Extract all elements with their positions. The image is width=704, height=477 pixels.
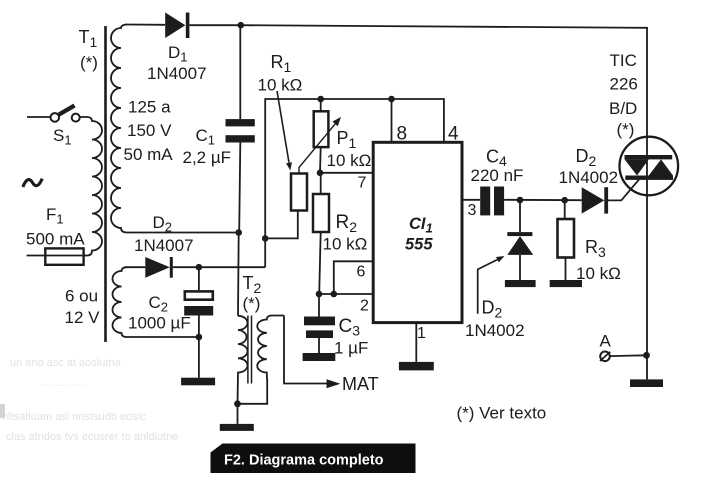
supply riser from rectifier to +V rail <box>265 99 444 267</box>
transformer T1 secondary 1 (125-150V) winding <box>111 25 127 233</box>
svg-text:D1: D1 <box>168 43 188 65</box>
diode D2 1N4002 series (to triac gate) <box>582 187 605 213</box>
svg-text:TIC: TIC <box>610 51 637 70</box>
capacitor C1 <box>239 25 241 119</box>
svg-text:1: 1 <box>417 325 426 342</box>
AC source symbol <box>23 179 42 187</box>
svg-text:8: 8 <box>397 124 408 145</box>
node C4 out <box>517 197 524 204</box>
node top wire / C1 <box>238 22 245 29</box>
wire pin 2 <box>319 293 373 295</box>
node R2/C3 <box>316 291 323 298</box>
transformer T2 primary winding <box>238 316 248 404</box>
node C2 top <box>196 264 203 271</box>
wire AC input top <box>27 116 50 118</box>
transformer T1 core <box>104 26 107 342</box>
svg-text:50 mA: 50 mA <box>124 145 174 164</box>
wire diode to triac gate <box>608 178 640 200</box>
svg-text:clas atndos tvs ecusrer to anl: clas atndos tvs ecusrer to anldiutne <box>6 431 178 443</box>
resistor R2 <box>320 173 322 194</box>
wire pin 6 <box>334 261 373 294</box>
node R3 top <box>561 197 568 204</box>
wire T2 bottom to ground <box>237 404 239 424</box>
caption F2 Diagrama completo <box>211 444 416 474</box>
svg-text:F2. Diagrama completo: F2. Diagrama completo <box>224 453 384 469</box>
svg-text:2,2 µF: 2,2 µF <box>183 148 232 167</box>
bleed-through (decorative) <box>0 357 178 443</box>
ground below R3 <box>550 280 582 287</box>
diode D1 <box>165 13 185 39</box>
IC CI1 555 <box>373 142 462 322</box>
label arrow to R1 <box>277 91 289 163</box>
svg-text:A: A <box>600 332 612 351</box>
triac TIC226 <box>620 137 679 196</box>
svg-text:un ano asc at aoslutna: un ano asc at aoslutna <box>10 357 122 369</box>
svg-text:12 V: 12 V <box>65 308 101 327</box>
svg-text:1 µF: 1 µF <box>334 339 368 358</box>
svg-text:150 V: 150 V <box>127 121 172 140</box>
wire riser to R1 bottom <box>265 211 298 239</box>
transformer T2 core <box>248 316 252 384</box>
wire D2 cathode to riser <box>173 266 265 268</box>
node C2 bottom <box>196 334 203 341</box>
wire pin 8 <box>391 99 393 142</box>
node C1 bottom <box>235 229 242 236</box>
capacitor C4 <box>480 187 490 216</box>
wire pin 3 to C4 <box>462 199 480 201</box>
ground below C2 <box>181 378 215 386</box>
svg-text:D2: D2 <box>153 213 173 235</box>
wire C1 node down to T2 primary <box>237 233 240 316</box>
svg-text:6: 6 <box>357 264 366 281</box>
svg-text:(*): (*) <box>243 294 261 313</box>
wire C2 node to ground <box>198 337 200 378</box>
node T2 bottom <box>234 400 241 407</box>
transformer T1 primary winding <box>80 117 102 256</box>
svg-text:226: 226 <box>610 75 638 94</box>
svg-text:D2: D2 <box>576 146 597 169</box>
svg-text:T2: T2 <box>243 273 262 296</box>
svg-text:2: 2 <box>360 298 369 315</box>
MAT arrow <box>327 379 341 388</box>
svg-text:......... .....: ......... ..... <box>40 377 86 389</box>
svg-text:10 kΩ: 10 kΩ <box>258 76 303 95</box>
svg-text:3: 3 <box>468 202 477 219</box>
svg-text:C1: C1 <box>196 126 216 148</box>
svg-text:B/D: B/D <box>609 99 637 118</box>
svg-text:C3: C3 <box>339 316 361 339</box>
svg-text:1N4002: 1N4002 <box>559 168 619 187</box>
switch S1 <box>51 106 80 122</box>
svg-text:7: 7 <box>358 175 367 192</box>
ground below 555 <box>399 362 434 371</box>
diode D2 1N4002 shunt <box>519 200 521 232</box>
svg-text:1000 µF: 1000 µF <box>128 314 191 333</box>
ground below triac <box>630 379 663 387</box>
svg-text:1N4007: 1N4007 <box>134 236 194 255</box>
svg-text:C2: C2 <box>149 293 169 315</box>
potentiometer P1 <box>320 99 322 111</box>
wire secondary2 bottom to C2 bottom <box>127 336 199 338</box>
svg-text:R2: R2 <box>336 212 358 235</box>
svg-text:R3: R3 <box>585 237 606 260</box>
node riser / R1 feed <box>262 235 269 242</box>
wire secondary1 bottom to C1 bottom <box>127 232 239 234</box>
+V rail node at P1 <box>317 96 324 103</box>
node P1/R2/pin7 <box>317 170 324 177</box>
svg-text:555: 555 <box>405 236 433 254</box>
resistor R3 <box>564 200 566 219</box>
node triac bottom <box>643 352 650 359</box>
capacitor C3 <box>318 294 320 317</box>
wire top rail to D1 <box>125 24 165 26</box>
svg-text:1N4007: 1N4007 <box>147 64 207 83</box>
transformer T1 secondary 2 (6-12V) winding <box>113 267 127 337</box>
svg-text:(*): (*) <box>80 53 98 72</box>
svg-text:F1: F1 <box>46 205 64 227</box>
wire C4 to D2/R3 <box>504 199 582 201</box>
resistor R1 <box>291 174 307 211</box>
svg-text:D2: D2 <box>482 298 503 321</box>
transformer T2 secondary winding <box>241 316 285 404</box>
svg-text:10 kΩ: 10 kΩ <box>327 151 372 170</box>
wire A to triac line <box>610 354 647 357</box>
svg-text:125 a: 125 a <box>128 98 171 117</box>
svg-text:10 kΩ: 10 kΩ <box>576 264 621 283</box>
svg-text:P1: P1 <box>337 128 357 151</box>
ground below shunt diode <box>505 280 536 287</box>
svg-text:(*): (*) <box>617 120 635 139</box>
node pin6/pin2 <box>331 291 338 298</box>
svg-text:MAT: MAT <box>342 374 379 394</box>
P1 wiper arrow to R1 top <box>299 124 335 174</box>
svg-text:220 nF: 220 nF <box>471 166 524 185</box>
svg-text:R1: R1 <box>271 52 292 75</box>
wire pin 7 <box>320 172 373 174</box>
svg-text:10 kΩ: 10 kΩ <box>323 235 368 254</box>
svg-text:6 ou: 6 ou <box>65 287 98 306</box>
diode D2 1N4007 <box>125 266 145 268</box>
wire D1 to top-right corner, down to triac <box>189 25 647 379</box>
svg-text:500 mA: 500 mA <box>26 230 85 249</box>
svg-text:nltsatiuam asi nnstsudb eoslc: nltsatiuam asi nnstsudb eoslc <box>2 411 146 423</box>
+V rail node at pin 8 <box>388 96 395 103</box>
wire T2 secondary to MAT output <box>284 316 327 384</box>
svg-text:4: 4 <box>448 124 459 145</box>
capacitor C2 (electrolytic) <box>198 267 200 290</box>
svg-text:T1: T1 <box>79 27 98 50</box>
wire pin 1 to ground <box>415 323 417 362</box>
ground below T2 <box>220 424 254 431</box>
ground below C3 <box>303 353 336 361</box>
svg-text:S1: S1 <box>53 126 72 148</box>
svg-text:(*) Ver texto: (*) Ver texto <box>457 404 547 423</box>
svg-text:1N4002: 1N4002 <box>465 321 525 340</box>
